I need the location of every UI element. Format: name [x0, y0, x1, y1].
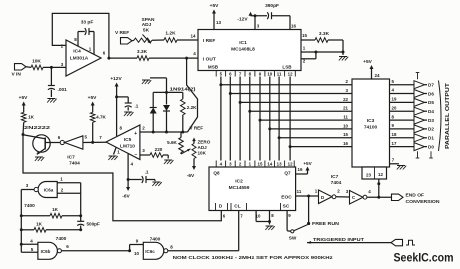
pin 4 wire IC3 right	[390, 93, 415, 95]
gate IC6a 7400	[38, 182, 57, 198]
pin 9 wire	[286, 211, 288, 231]
resistor 2.2K	[182, 92, 184, 99]
svg-text:23: 23	[366, 173, 372, 178]
svg-text:SeekIC.com: SeekIC.com	[394, 251, 454, 265]
connector V IN	[15, 64, 27, 70]
svg-text:I OUT: I OUT	[203, 57, 216, 63]
svg-text:.1: .1	[135, 104, 139, 109]
svg-text:D1: D1	[428, 136, 434, 141]
node bus junction 5	[268, 127, 271, 130]
svg-text:V REF: V REF	[115, 30, 129, 36]
svg-text:Q7: Q7	[284, 171, 291, 176]
wire EOC to switch	[308, 196, 310, 223]
svg-text:.001: .001	[58, 87, 68, 93]
pin 11 EOC wire	[296, 195, 319, 197]
svg-text:IC7: IC7	[331, 174, 339, 180]
buffer D3	[414, 116, 425, 124]
wire comparator output	[83, 141, 106, 143]
svg-text:IC3: IC3	[367, 118, 375, 124]
svg-text:IC6b: IC6b	[41, 249, 51, 254]
node bus junction 7	[289, 145, 292, 148]
pin 8 wire IC3 right	[390, 119, 415, 121]
svg-text:SC: SC	[283, 204, 290, 210]
svg-text:D2: D2	[428, 127, 434, 132]
svg-text:TRIGGERED INPUT: TRIGGERED INPUT	[313, 237, 364, 242]
ground	[342, 52, 344, 55]
wire bus bit 1 vertical	[229, 77, 231, 161]
buffer D1	[414, 134, 425, 142]
node bus junction 0	[219, 83, 222, 86]
svg-text:+: +	[134, 131, 137, 137]
svg-text:220: 220	[155, 147, 163, 152]
pin 16 wire	[289, 16, 291, 30]
svg-text:3.3K: 3.3K	[137, 49, 148, 55]
wire bus bit 4 horizontal	[260, 119, 352, 121]
svg-text:7404: 7404	[331, 180, 342, 186]
svg-text:3.3K: 3.3K	[319, 31, 330, 37]
svg-text:PARALLEL OUTPUT: PARALLEL OUTPUT	[445, 83, 451, 149]
svg-text:V IN: V IN	[12, 72, 22, 78]
svg-text:D0: D0	[428, 144, 434, 149]
resistor 10K	[31, 65, 43, 70]
wire bus bit 5 vertical	[269, 77, 271, 161]
pin 8 wire	[269, 211, 271, 222]
node bus junction 6	[278, 136, 281, 139]
svg-text:21: 21	[343, 106, 348, 111]
svg-text:IC7: IC7	[67, 155, 75, 161]
svg-text:−: −	[135, 152, 138, 158]
wire feedback vertical	[20, 190, 22, 253]
svg-text:16: 16	[298, 167, 303, 172]
ground clamp	[142, 79, 150, 81]
pin 3 resistor 220	[140, 154, 150, 156]
svg-text:LSB: LSB	[282, 65, 292, 70]
pin 1 wire	[57, 182, 80, 184]
svg-text:END OF: END OF	[406, 193, 425, 198]
svg-text:FREE RUN: FREE RUN	[312, 221, 340, 226]
svg-text:1K: 1K	[36, 222, 43, 227]
svg-text:MSB: MSB	[208, 65, 219, 70]
svg-text:.1: .1	[145, 170, 149, 175]
svg-text:1K: 1K	[28, 115, 35, 120]
svg-text:11: 11	[343, 115, 348, 120]
svg-text:IC1: IC1	[239, 40, 247, 46]
wire bus bit 3 vertical	[249, 77, 251, 161]
svg-text:IC5: IC5	[124, 137, 132, 143]
wire bus bit 6 vertical	[278, 77, 280, 161]
svg-text:1.2K: 1.2K	[165, 31, 176, 37]
node bus junction 3	[248, 110, 251, 113]
svg-text:11: 11	[277, 72, 282, 77]
node bus junction 1	[229, 92, 232, 95]
svg-text:+5V: +5V	[19, 95, 28, 101]
wire base	[45, 142, 60, 144]
svg-text:2N2222: 2N2222	[24, 125, 50, 131]
capacitor .001	[50, 67, 52, 85]
pin 16 +5V	[296, 173, 308, 175]
svg-text:IC4: IC4	[73, 49, 81, 55]
diode D1 1N914	[152, 92, 154, 107]
svg-text:7400: 7400	[150, 236, 161, 242]
pin 7 ground IC3	[390, 163, 400, 165]
svg-text:EOC: EOC	[281, 195, 292, 201]
wire feedback loop	[52, 13, 109, 58]
svg-text:ZERO: ZERO	[198, 140, 211, 145]
svg-text:10: 10	[267, 72, 272, 77]
wire bus bit 0 vertical	[220, 77, 222, 161]
svg-text:15: 15	[343, 132, 348, 137]
wire bus bit 7 horizontal	[290, 146, 352, 148]
wire bus bit 6 horizontal	[279, 137, 352, 139]
svg-text:NOM CLOCK 100KHz - 2MHz SET FO: NOM CLOCK 100KHz - 2MHz SET FOR APPROX 9…	[173, 255, 334, 261]
brace parallel output	[439, 81, 442, 152]
pin 5 wire	[21, 251, 38, 253]
svg-text:16: 16	[343, 141, 348, 146]
inverter C	[350, 190, 364, 204]
svg-text:+5V: +5V	[88, 95, 97, 101]
svg-text:Q8: Q8	[213, 171, 220, 176]
wire bus bit 2 horizontal	[240, 101, 352, 103]
svg-text:IC6c: IC6c	[145, 249, 155, 254]
svg-text:+5V: +5V	[363, 59, 372, 65]
svg-text:D: D	[219, 204, 223, 210]
node I OUT	[185, 57, 188, 60]
svg-text:15: 15	[258, 162, 263, 167]
wire	[152, 39, 164, 41]
pin 1 wire	[301, 51, 343, 53]
svg-text:10K: 10K	[32, 59, 41, 65]
ground	[154, 180, 156, 182]
pin 2 wire	[57, 192, 80, 194]
svg-text:1K: 1K	[52, 207, 59, 212]
ground	[164, 159, 172, 161]
svg-text:24: 24	[374, 73, 380, 78]
node op-amp output	[107, 57, 110, 60]
pulse symbol	[406, 240, 415, 245]
svg-text:D6: D6	[428, 91, 434, 96]
svg-text:14: 14	[190, 34, 196, 39]
diode D2 1N914	[166, 92, 168, 104]
pin 18 wire IC3 right	[390, 137, 415, 139]
wire strobe	[378, 179, 380, 197]
pin 3 wire	[254, 14, 257, 17]
wire to EOC out	[367, 196, 392, 198]
power -6V comparator	[127, 180, 129, 188]
resistor 4.7K	[90, 112, 95, 122]
comparator IC5 LM710	[106, 125, 140, 160]
buffer D7	[414, 81, 425, 89]
svg-text:5.6K: 5.6K	[167, 140, 177, 145]
svg-text:74100: 74100	[364, 125, 378, 131]
svg-text:SW: SW	[289, 236, 297, 241]
svg-text:13: 13	[277, 162, 282, 167]
svg-text:16: 16	[291, 24, 297, 29]
svg-text:19: 19	[392, 97, 397, 102]
svg-text:33 pF: 33 pF	[81, 20, 94, 26]
wire oscillator rail	[80, 183, 82, 222]
buffer D0	[414, 143, 425, 151]
continuation mark bottom right	[430, 151, 432, 158]
IC2 top pin ticks	[215, 161, 217, 168]
power -6V pot	[192, 166, 196, 170]
buffer D5	[414, 98, 425, 106]
svg-text:IC2: IC2	[235, 179, 243, 185]
wire bus bit 4 vertical	[259, 77, 261, 161]
wire bus bit 7 vertical	[289, 77, 291, 161]
svg-text:V REF: V REF	[190, 126, 204, 131]
wire clamp top rail	[153, 91, 183, 93]
input tie	[128, 249, 131, 252]
svg-text:MC14559: MC14559	[229, 185, 250, 191]
svg-text:20: 20	[392, 105, 397, 110]
buffer D4	[414, 107, 425, 115]
svg-text:22: 22	[343, 97, 348, 102]
connector triggered input	[391, 239, 403, 245]
svg-text:5K: 5K	[143, 28, 150, 34]
wire bus bit 5 horizontal	[270, 128, 352, 130]
capacitor 500pF	[77, 220, 84, 222]
wire	[336, 196, 350, 198]
buffer D6	[414, 90, 425, 98]
svg-text:13: 13	[216, 20, 222, 25]
IC2 bottom cell ticks	[215, 203, 217, 211]
wire bus bit 1 horizontal	[230, 93, 352, 95]
pin 5 wire IC3 right	[390, 84, 415, 86]
svg-text:+5V: +5V	[303, 161, 312, 166]
svg-text:12: 12	[288, 72, 293, 77]
svg-text:18: 18	[392, 132, 397, 137]
pin 2 wire	[301, 58, 316, 60]
wire	[43, 66, 66, 68]
svg-text:-6V: -6V	[122, 194, 130, 200]
resistor 3.3K	[109, 57, 137, 59]
svg-text:14: 14	[267, 162, 272, 167]
svg-text:11: 11	[297, 189, 302, 194]
node bus junction 2	[239, 101, 242, 104]
DAC pin comb ticks	[215, 71, 217, 77]
switch SW free run	[307, 222, 310, 225]
potentiometer ZERO ADJ 10K	[192, 138, 196, 142]
wire I OUT to V REF node	[187, 58, 198, 132]
wire clock out	[168, 250, 239, 252]
wiper wire	[180, 153, 182, 155]
pin 20 wire IC3 right	[390, 110, 415, 112]
connector END OF CONVERSION	[392, 194, 404, 200]
svg-text:10: 10	[256, 213, 261, 218]
wire data to D input	[23, 135, 221, 221]
svg-text:+5V: +5V	[210, 3, 219, 9]
wire to pin 14	[177, 39, 198, 41]
wire to I OUT	[149, 57, 198, 59]
svg-text:CL: CL	[234, 204, 240, 210]
pin 1 ground LM710	[114, 148, 117, 155]
svg-text:+12V: +12V	[110, 76, 122, 82]
IC U2 MC14559 SAR	[209, 167, 296, 211]
svg-text:4.7K: 4.7K	[96, 115, 106, 120]
wire bus bit 0 horizontal	[221, 84, 352, 86]
svg-text:15: 15	[302, 33, 308, 38]
pin 10 wire	[255, 211, 257, 222]
ground	[124, 111, 132, 113]
wire triggered input	[307, 242, 391, 244]
strobe box pins 23 12	[362, 167, 387, 179]
capacitor 390pF	[267, 12, 268, 19]
svg-text:-12V: -12V	[237, 17, 248, 23]
wire bus bit 3 horizontal	[250, 110, 352, 112]
svg-text:ADJ: ADJ	[198, 145, 208, 150]
capacitor .1 at pin 4	[128, 179, 142, 181]
pin 4 wire	[127, 153, 129, 179]
ground emitter	[35, 156, 43, 158]
svg-text:2.2K: 2.2K	[187, 105, 197, 110]
IC U3 74100 latch	[352, 79, 390, 167]
svg-text:LM710: LM710	[120, 144, 135, 150]
svg-text:12: 12	[288, 162, 293, 167]
svg-text:D3: D3	[428, 118, 434, 123]
svg-text:D4: D4	[428, 109, 434, 114]
svg-text:IC6a: IC6a	[44, 188, 54, 193]
wire comparator plus rail	[140, 131, 188, 133]
IC U1 MC1408L8 DAC	[198, 30, 301, 71]
svg-text:10K: 10K	[198, 151, 207, 156]
resistor 1K row A	[21, 215, 50, 217]
node bus junction 4	[259, 119, 262, 122]
pin 19 wire IC3 right	[390, 101, 415, 103]
svg-text:D7: D7	[428, 83, 434, 88]
op-amp IC4 LM301A	[66, 40, 101, 76]
svg-text:MC1408L8: MC1408L8	[231, 47, 255, 53]
wire to IC6c	[61, 250, 129, 252]
pin 4 wire	[21, 243, 38, 245]
pin 17 wire IC3 right	[390, 146, 415, 148]
ground	[266, 225, 274, 227]
svg-text:390pF: 390pF	[265, 3, 279, 9]
svg-text:7400: 7400	[24, 203, 35, 209]
node input junction	[50, 66, 53, 69]
potentiometer SPAN ADJ 5K	[132, 39, 134, 42]
resistor 1.2K	[164, 38, 177, 43]
svg-text:12: 12	[378, 172, 384, 177]
svg-text:LM301A: LM301A	[70, 56, 89, 62]
svg-text:7400: 7400	[56, 236, 67, 242]
node collector	[22, 133, 25, 136]
resistor 1K row B	[21, 229, 34, 231]
svg-text:I REF: I REF	[203, 38, 215, 44]
continuation mark top	[417, 73, 419, 80]
ground	[47, 98, 55, 100]
pin 15 resistor 3.3K	[301, 39, 315, 41]
svg-text:7404: 7404	[69, 161, 80, 167]
wire	[26, 66, 31, 69]
svg-text:17: 17	[392, 141, 397, 146]
buffer D2	[414, 125, 425, 133]
resistor 5.6K	[179, 138, 184, 153]
svg-text:500pF: 500pF	[87, 222, 100, 227]
svg-text:1N914(2): 1N914(2)	[170, 87, 197, 92]
resistor 1K collector	[21, 112, 26, 122]
svg-text:-6V: -6V	[187, 173, 195, 179]
wire bus bit 2 vertical	[239, 77, 241, 161]
capacitor 33 pF comp	[77, 32, 79, 47]
svg-text:10: 10	[134, 251, 140, 256]
continuation mark bottom	[417, 151, 419, 158]
svg-text:CONVERSION: CONVERSION	[406, 199, 441, 204]
svg-text:10: 10	[343, 123, 348, 128]
pin 9 wire IC3 right	[390, 128, 415, 130]
svg-text:D5: D5	[428, 100, 434, 105]
svg-text:ADJ: ADJ	[142, 22, 152, 28]
wire clock to CL	[238, 211, 240, 251]
capacitor .1 at +12V	[117, 96, 129, 98]
